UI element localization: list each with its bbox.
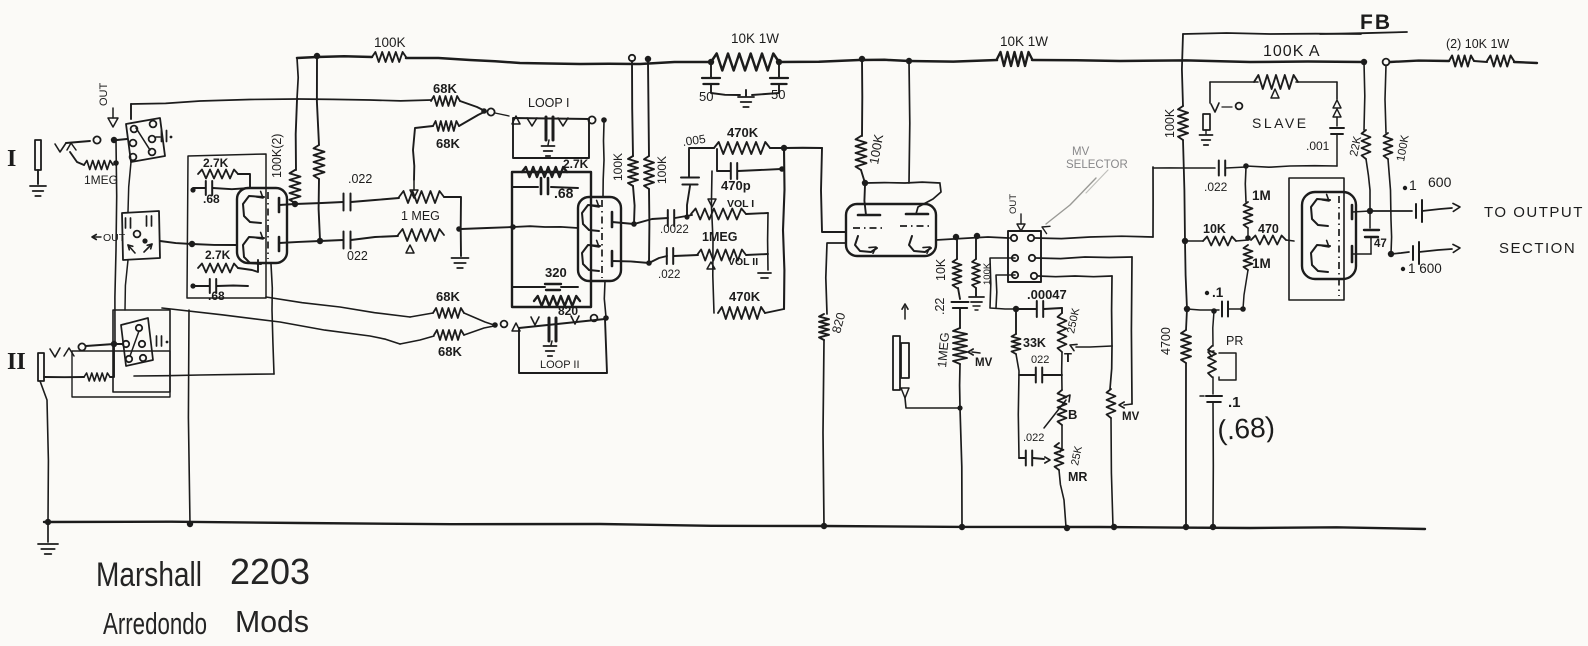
label 68K (lower-II) [438,344,462,359]
resistor R 2.7K upper [198,170,238,179]
resistor R 2.7K (V2) [522,167,567,177]
wire 100K-b to plate [648,189,650,263]
wire V2 grid [513,226,578,228]
resistor VOL I track [691,209,746,220]
node 820 ground [821,523,827,529]
svg-text:MV: MV [1122,411,1140,423]
label T [1064,350,1072,365]
wire V2 lower to loop II riser [604,281,606,317]
terminal loop II send (ring) [501,321,508,328]
label 100K rotated (b) [655,156,669,184]
svg-text:022: 022 [1031,354,1049,366]
arrow slave double b [1333,109,1341,117]
label 2.7K (lower) [205,248,231,262]
potentiometer MV right track [1107,389,1116,418]
wire slave pot left drop [1209,82,1211,103]
node ground bus left [45,519,51,525]
relay K2 contact c [139,341,145,347]
capacitor C 47 [1364,230,1379,237]
wire arrow to output lower [1419,244,1460,252]
wire volume right rail [767,213,769,270]
wire FB down to 10K node [1183,140,1185,241]
wire 1M upper to node [1247,228,1249,238]
ground loop II [544,341,557,356]
label MV (1meg pot) [975,357,993,369]
capacitor C 320 (bars) [545,284,561,290]
svg-text:470p: 470p [721,178,751,193]
label TO OUTPUT [1484,204,1584,221]
jack J input-II tip spring [64,348,74,356]
label 68K (upper-I) [433,81,457,96]
wire B down [1060,425,1062,452]
label MV (right) [1122,411,1140,423]
wire V1 grid across box [192,244,237,245]
node bus-50uF-right [776,59,782,65]
wire resistor to node II [110,347,114,377]
relay K2 contact e [140,355,146,361]
svg-text:1M: 1M [1252,256,1271,271]
label SLAVE [1252,115,1309,131]
wire 100K small from tap [975,236,977,259]
label 33K [1023,336,1046,350]
svg-text:MR: MR [1068,470,1087,484]
svg-text:2.7K: 2.7K [205,248,231,262]
wire 3R riser to MV [1110,346,1112,389]
svg-text:Arredondo: Arredondo [103,606,207,641]
label 470p [721,178,751,193]
svg-text:68K: 68K [433,81,457,96]
label 100K rotated (V3) [866,133,886,166]
resistor R input-II grid stopper [84,373,110,381]
wire pot to V2 wire [461,227,513,229]
arrow slave double a [1333,100,1341,108]
wire bus segment to 2nd 10K [909,60,997,62]
svg-text:LOOP I: LOOP I [528,96,569,110]
wire .68 upper leads [193,188,250,189]
svg-text:II: II [7,349,26,375]
svg-text:33K: 33K [1023,336,1046,350]
jack J input-I body [35,140,41,170]
node V2 grid entry [510,224,516,230]
wire PR tap to cap [1214,309,1219,311]
svg-text:2.7K: 2.7K [203,156,229,170]
node pot output [456,226,462,232]
wire 100K-a from bus [632,61,633,156]
wire .022 low left [1019,457,1025,459]
label .00047 [1027,287,1067,302]
arrow pencil callout [1042,170,1108,234]
relay K2 contact b [123,341,129,347]
switch S2 contact [134,231,141,238]
wire T wiper link [1070,344,1112,350]
label 250K rotated [1065,306,1082,334]
wire 47 top [1369,211,1371,228]
node 22K supply tap [1361,59,1367,65]
svg-text:SLAVE: SLAVE [1252,115,1309,131]
label (2) 10K 1W [1446,37,1509,51]
box V2 cathode network [512,172,591,307]
wire .022 lower to pot [351,236,398,240]
wire V3 plate left up [864,185,866,215]
tube V3 plate right [906,213,928,216]
wire ground bus [44,522,1425,529]
label 1MEG (input I) [84,173,118,187]
label LOOP II [540,359,580,371]
selector contact 3R [1031,273,1037,279]
arrow loop I triangle [512,116,520,124]
capacitor C .022 (V2) [667,248,673,264]
svg-text:2.7K: 2.7K [563,157,589,171]
tube V3 grid dash a [853,227,884,229]
wire FB to 10K [1185,240,1203,242]
terminal 100K supply tap (ring) [1383,59,1390,66]
capacitor C 470p [731,163,737,179]
jack J input-II body [38,353,44,381]
node V2 plate a [631,221,637,227]
svg-text:LOOP II: LOOP II [540,359,580,371]
resistor VOL II track [697,250,746,261]
wire .22 to MV pot [959,309,961,328]
capacitor C .022 (tone low) [1026,451,1032,466]
wire input II node to relay K2 [117,343,123,345]
terminal input-II (ring) [78,343,85,350]
svg-text:VOL I: VOL I [727,198,754,210]
label OUT with left arrow (S2) [92,232,126,244]
wire S2 to V1 grid box [160,241,192,244]
tube V3 envelope [846,204,936,256]
label 22K rotated [1348,135,1364,158]
svg-text:1M: 1M [1252,188,1271,203]
svg-text:10K: 10K [934,258,948,281]
svg-text:470: 470 [1258,222,1279,236]
node 100K right top [645,56,651,62]
svg-text:SELECTOR: SELECTOR [1066,159,1128,171]
switch S2 cap right [147,216,152,226]
ground 1MEG pot [452,258,469,268]
svg-text:.68: .68 [554,185,574,201]
svg-text:10K 1W: 10K 1W [1000,34,1048,49]
capacitor C .005 [681,178,699,185]
svg-text:68K: 68K [436,136,460,151]
svg-text:Mods: Mods [235,604,309,639]
capacitor C .68 upper [206,181,212,195]
wire VOL I to right rail [746,213,768,214]
capacitor relay-II snubber [157,336,169,346]
node FB/.1 junction [1184,306,1190,312]
label .68 (lower) [208,289,225,303]
wire V1 plate lower lead [279,241,320,243]
wire plate to .022 upper [295,202,343,204]
resistor R 100K (out) [1384,133,1393,159]
capacitor C .1 (PR) [1200,396,1222,402]
node .005 bottom [684,214,689,219]
relay K1 armature [136,128,150,150]
wire PR cap to ground bus [1212,402,1214,527]
resistor R 100K (FB) [1178,106,1188,140]
svg-text:(2) 10K 1W: (2) 10K 1W [1446,37,1509,51]
node output 10K tap [953,234,959,240]
jack J input-I tip contact [55,143,66,152]
relay K1 contact e [130,154,137,161]
wire 68K lower to 1MEG pot feed [413,126,433,180]
selector contact 2R [1029,255,1035,261]
label input I [7,146,16,172]
svg-text:.022: .022 [1204,180,1228,194]
wire heavy junction to V3 grid [784,147,822,149]
wire 10K from tap [956,237,958,259]
arrow jack down [901,388,909,398]
label .1 (PR) [1228,394,1241,411]
wire screen line corner to bus [297,58,298,99]
wire 68K-II lower to junction [464,326,494,335]
label 100K rotated (a) [611,153,625,181]
wire heavy junction vertical [783,148,785,309]
label B [1068,407,1077,422]
node 470p junction [779,166,785,172]
tube V4 cathode lower [1311,240,1330,272]
wire MV right riser [1130,257,1133,404]
wire top supply bus left segment [297,56,372,58]
wire loop I return to V2 grid [603,122,604,197]
resistor R 100K (V2 plate a) [628,156,638,186]
svg-text:1 MEG: 1 MEG [401,209,440,223]
wire selector 3L loop [996,275,1015,308]
wire FB to 4700 [1186,309,1187,330]
label PR [1226,334,1243,348]
resistor R 470K bottom [718,307,765,319]
wire 3R riser [1111,276,1113,346]
node MV pot bottom [957,405,962,410]
wire .022 upper to pot [351,198,399,202]
label 1M (upper) [1252,188,1271,203]
wire jack II sleeve to ground bus [40,381,48,522]
label 10K 1W (2nd) [1000,34,1048,49]
wire 100K out from bus [1385,65,1386,133]
wire MV right to ground bus [1111,418,1113,527]
terminal loop I return (ring) [588,116,595,123]
switch S2 body [122,211,160,260]
svg-text:I: I [7,146,16,172]
node bus drop right of V3 [906,58,912,64]
wire 320 leads [512,286,578,288]
label .022 (V2) [658,269,680,281]
label .1 600 lower [1401,261,1442,276]
selector contact 1L [1011,235,1017,241]
label 1MEG rotated (MV) [935,332,952,369]
capacitor loop II (bars) [549,318,556,341]
wire slave pot left [1210,81,1258,83]
capacitor loop I (bars) [546,117,553,140]
terminal loop I send (ring) [487,108,494,115]
wire slave pot right [1296,81,1337,83]
wire .001 to grid line [1336,135,1338,166]
wire 2.7K upper right to .68 [238,174,250,188]
wire bus segment to 10K 1W [406,58,711,64]
label 10K rotated [934,258,948,281]
capacitor C .022 lower [344,232,351,249]
svg-text:1 600: 1 600 [1408,261,1442,276]
wire loop I link [495,113,509,116]
wire 22K to plate node [1366,159,1370,211]
svg-text:T: T [1064,350,1072,365]
wire .68 V2 leads [512,187,578,188]
svg-text:.022: .022 [1023,432,1044,444]
arrow B wiper diagonal [1044,395,1070,428]
tube V2 cathode lower [582,240,600,271]
resistor R 2.7K lower [198,264,238,273]
resistor R 100K (top-left plate supply) [372,52,406,62]
arrow jack up [902,304,908,319]
label .1 600 upper [1403,174,1452,193]
resistor R 68K upper-I [431,96,460,106]
node 10K/470 junction [1245,235,1251,241]
svg-text:4700: 4700 [1159,327,1173,355]
wire .022 to grid node [1226,167,1246,168]
relay K1 contact b [150,121,157,128]
relay K2 contact a [136,325,142,331]
wire input-I node to relay [117,139,127,140]
relay K2 contact d [126,356,132,362]
wire FB vertical down [1182,34,1183,106]
node .68 lower left [190,283,195,288]
label input II [7,349,26,375]
wire relay K1 to supply line [130,104,132,119]
potentiometer SLAVE track [1254,75,1298,89]
box V4 enclosure [1289,178,1344,300]
jack J input-II tip contact [50,348,60,357]
wire VOL feed vertical [711,171,714,313]
svg-text:.001: .001 [1306,139,1330,153]
svg-text:OUT: OUT [98,83,110,107]
wire bus segment long [1032,60,1364,62]
label 50 (right) [771,87,785,102]
resistor R 1MEG (input I) [84,161,113,170]
wire bus drop to plate line [908,61,911,183]
node MV ground [959,524,965,530]
label OUT (relay I) rotated [98,83,110,107]
resistor R 1M lower [1244,245,1253,270]
arrow 68K feed into pot [410,181,418,198]
wire riser to .022 line [1152,167,1154,237]
node V4 grid top [1243,163,1249,169]
label OUT rotated (selector) [1008,194,1019,214]
label title Mods [235,604,309,639]
resistor R 68K lower-II [434,330,464,340]
tube V3 plate left [858,214,880,217]
svg-text:100K: 100K [655,156,669,184]
arrow MV wiper [968,349,980,355]
relay K1 body [126,118,165,162]
tube V4 cathode upper [1311,194,1330,226]
wire V4 plate upper lead [1352,211,1370,212]
label 4700 rotated [1159,327,1173,355]
svg-text:10K 1W: 10K 1W [731,31,779,46]
capacitor C .022 (tone mid) [1036,368,1042,383]
svg-text:MV: MV [1072,146,1090,158]
label (.68) [1216,411,1276,446]
resistor R (2)10K 1W b [1487,56,1514,67]
svg-text:SECTION: SECTION [1499,240,1576,257]
wire bus right end [1514,62,1537,63]
svg-text:470K: 470K [727,125,759,140]
svg-text:.68: .68 [208,289,225,303]
wire selector 3R down [1038,275,1112,278]
jack slave body [1203,114,1210,130]
svg-text:.1: .1 [1228,394,1241,411]
wire 470K to junction [770,147,784,149]
wire selector 1R to grid network [1035,236,1153,238]
potentiometer 250K T track [1058,308,1067,352]
label 100K [374,35,406,50]
wire screen line relay to 68K [131,99,298,104]
tube V4 grid dash [1338,196,1340,296]
resistor R 68K upper-II [433,308,464,318]
wire pot right vertical [444,197,461,256]
wire bus segment [862,60,909,61]
wire V3 grid feed [821,148,846,232]
tube V3 cathode left [855,236,877,253]
label 100K rotated small [982,262,993,285]
label .022 (tone low) [1023,432,1044,444]
node 68K junction I [481,108,487,114]
node PR ground [1210,524,1216,530]
label .022 (slave) [1204,180,1228,194]
resistor R 68K lower-I [433,121,459,131]
resistor R 10K (V4) [1203,237,1236,246]
wire 68K-II upper to junction [464,313,494,325]
terminal loop II return (ring) [591,315,598,322]
svg-text:OUT: OUT [1008,194,1019,214]
selector contact 1R [1028,235,1034,241]
box loop II [519,319,607,373]
wire MR to ground bus [1059,470,1066,527]
loop I V mark left [527,118,537,126]
label 1 MEG [401,209,440,223]
label VOL I [727,198,754,210]
wire V1 to 68K-II upper [266,297,410,317]
wire 100K to plate node [319,179,320,240]
svg-text:1: 1 [1409,177,1417,193]
label 470K (top) [727,125,759,140]
node 1M bottom [1240,306,1246,312]
tube V2 plate upper [611,212,614,227]
svg-text:MV: MV [975,357,993,369]
wire V1 lower cathode riser [271,264,274,374]
switch S2 arrow b [144,244,152,252]
svg-text:TO OUTPUT: TO OUTPUT [1484,204,1584,221]
wire 68K-II lower lead [400,336,434,344]
wire 33K down [1016,354,1019,458]
wire PR to .1 [1212,377,1214,394]
label 47 [1374,238,1387,250]
wire jack to MV pot [905,398,958,408]
label 10K 1W [731,31,779,46]
wire channel link vertical (input I to input II) [115,141,117,344]
node loop II junction [492,322,498,328]
wire relay II to loop riser [134,374,274,376]
capacitor C .22 [952,302,969,308]
svg-text:320: 320 [545,265,567,280]
tube V1 cathode upper [243,191,264,223]
jack J line-out inner [901,343,909,378]
svg-text:1MEG: 1MEG [702,230,737,244]
capacitor C .001 [1330,128,1344,134]
resistor R 100K (V3 small) [972,259,980,288]
resistor R 22K [1362,130,1371,159]
node MR ground [1064,525,1070,531]
wire .00047 left [1016,308,1036,310]
wire slave right drop [1336,82,1338,99]
